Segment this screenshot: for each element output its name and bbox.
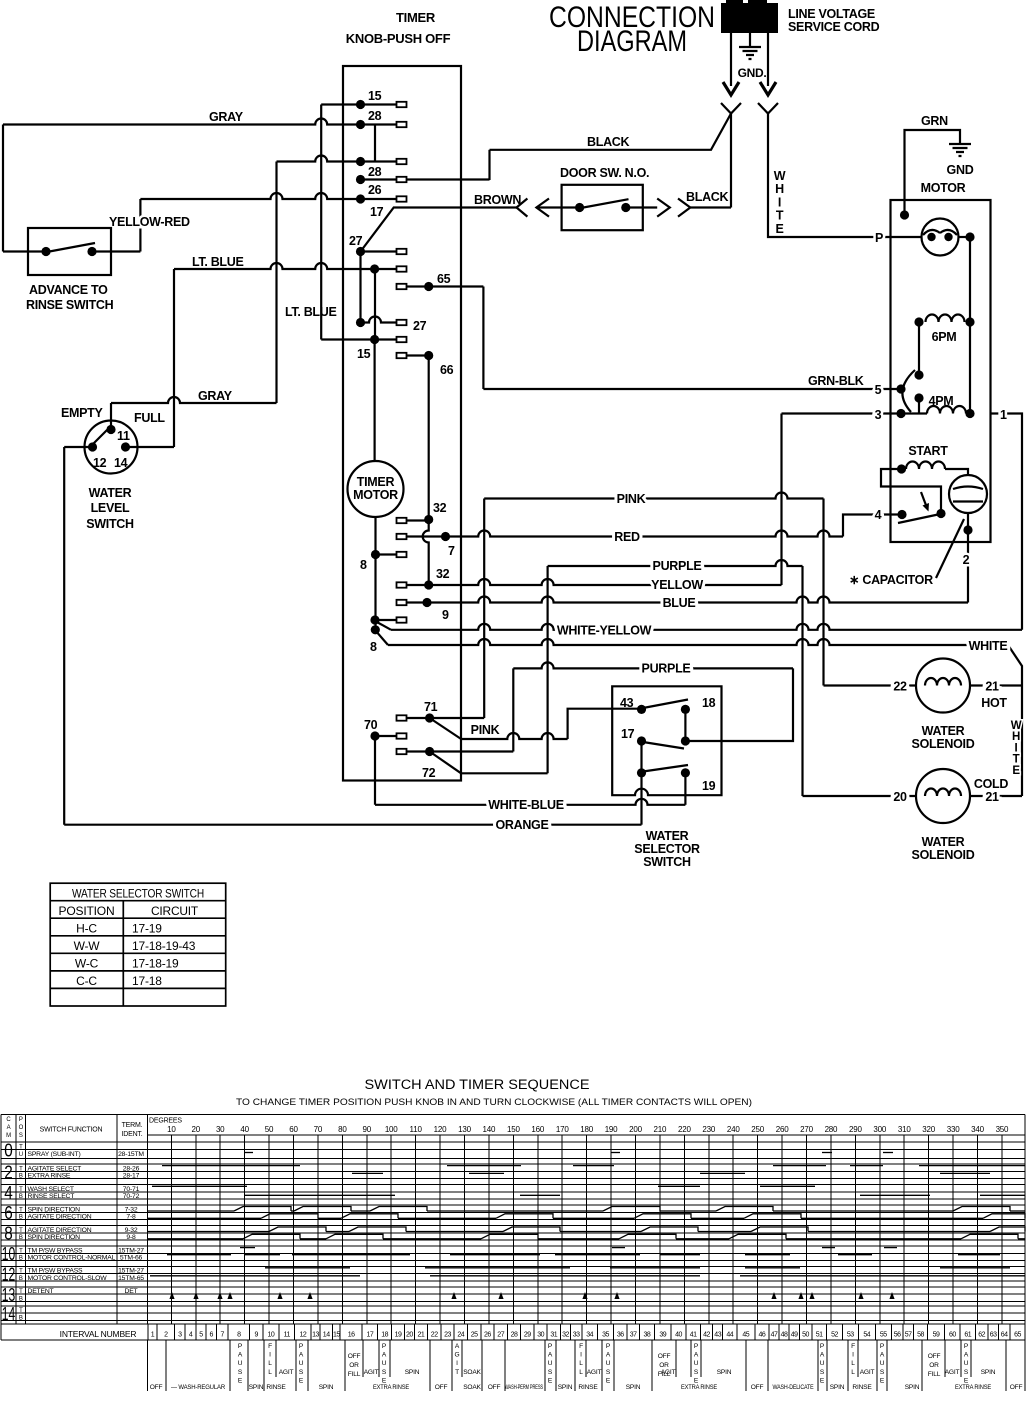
wire 6PM left down to cam switch bbox=[918, 322, 920, 375]
svg-text:BLACK: BLACK bbox=[587, 135, 630, 149]
svg-text:66: 66 bbox=[440, 363, 454, 377]
timer terminal 70 bbox=[397, 733, 407, 738]
svg-text:140: 140 bbox=[483, 1125, 496, 1134]
svg-text:34: 34 bbox=[586, 1332, 593, 1339]
svg-text:36: 36 bbox=[617, 1332, 624, 1339]
svg-text:T: T bbox=[19, 1289, 23, 1295]
svg-text:11: 11 bbox=[117, 429, 130, 443]
water level contact 11 bbox=[106, 425, 115, 434]
svg-text:31: 31 bbox=[550, 1332, 557, 1339]
svg-text:GRAY: GRAY bbox=[209, 110, 244, 124]
svg-text:IDENT.: IDENT. bbox=[122, 1131, 143, 1138]
svg-text:43: 43 bbox=[714, 1332, 721, 1339]
wire 66 down to terminal 32 bbox=[428, 356, 430, 520]
wire GRN with ground bbox=[905, 130, 961, 215]
svg-text:6PM: 6PM bbox=[932, 330, 957, 344]
svg-text:290: 290 bbox=[849, 1125, 862, 1134]
svg-text:WASH-DELICATE: WASH-DELICATE bbox=[773, 1384, 815, 1391]
main winding 6PM coil bbox=[914, 317, 923, 326]
timer box bbox=[343, 66, 461, 781]
svg-text:44: 44 bbox=[726, 1332, 733, 1339]
svg-text:21: 21 bbox=[985, 680, 999, 694]
timer terminal 28 top bbox=[3, 119, 397, 125]
svg-text:U: U bbox=[694, 1360, 699, 1367]
svg-text:280: 280 bbox=[825, 1125, 838, 1134]
svg-text:14: 14 bbox=[2, 1304, 16, 1324]
svg-text:0: 0 bbox=[4, 1140, 13, 1160]
svg-text:LT. BLUE: LT. BLUE bbox=[192, 255, 244, 269]
svg-text:B: B bbox=[19, 1235, 23, 1241]
svg-text:WATER: WATER bbox=[646, 829, 689, 843]
svg-text:5: 5 bbox=[199, 1332, 203, 1339]
svg-text:T: T bbox=[19, 1187, 23, 1193]
svg-text:∗ CAPACITOR: ∗ CAPACITOR bbox=[849, 573, 933, 587]
svg-text:22: 22 bbox=[431, 1332, 438, 1339]
svg-text:58: 58 bbox=[917, 1332, 924, 1339]
timer terminal 15 lower bbox=[321, 338, 396, 340]
wire 11 vertical bbox=[110, 403, 112, 430]
svg-text:E: E bbox=[1012, 765, 1020, 777]
svg-text:20: 20 bbox=[893, 790, 907, 804]
capacitor lower node bbox=[963, 525, 972, 534]
wire red corner to terminal 4 bbox=[843, 515, 902, 537]
svg-text:3: 3 bbox=[875, 408, 882, 422]
svg-text:RINSE SWITCH: RINSE SWITCH bbox=[26, 298, 114, 312]
svg-text:72: 72 bbox=[422, 766, 436, 780]
svg-text:EXTRA RINSE: EXTRA RINSE bbox=[28, 1173, 71, 1180]
wire 27 link vertical crossing bbox=[374, 269, 376, 340]
svg-text:SOAK: SOAK bbox=[463, 1384, 481, 1391]
wire 14 right bbox=[126, 446, 175, 448]
wire GRN-BLK to terminal 5 bbox=[483, 388, 901, 390]
wire BLACK from timer 26 up and over to connector bbox=[488, 150, 490, 180]
svg-text:U: U bbox=[382, 1360, 387, 1367]
wire ORANGE to selector 17 bbox=[64, 824, 641, 826]
svg-text:S: S bbox=[19, 1133, 23, 1139]
svg-text:DET: DET bbox=[125, 1288, 138, 1295]
svg-text:WHITE-YELLOW: WHITE-YELLOW bbox=[557, 624, 652, 638]
svg-text:OFF: OFF bbox=[1010, 1384, 1023, 1391]
wire into door switch left bbox=[536, 206, 579, 208]
svg-text:12: 12 bbox=[2, 1265, 16, 1285]
svg-text:220: 220 bbox=[678, 1125, 691, 1134]
svg-text:5TM-66: 5TM-66 bbox=[120, 1255, 143, 1262]
svg-text:23: 23 bbox=[444, 1332, 451, 1339]
svg-text:GND.: GND. bbox=[738, 66, 767, 80]
svg-text:50: 50 bbox=[265, 1125, 274, 1134]
svg-text:WHITE: WHITE bbox=[969, 639, 1008, 653]
svg-text:27: 27 bbox=[349, 234, 363, 248]
chart frame and grid bbox=[1, 1115, 1025, 1341]
svg-text:T: T bbox=[19, 1248, 23, 1254]
svg-text:T: T bbox=[19, 1308, 23, 1314]
svg-text:10: 10 bbox=[2, 1244, 16, 1264]
svg-text:200: 200 bbox=[629, 1125, 642, 1134]
svg-text:WATER: WATER bbox=[89, 486, 132, 500]
svg-text:63: 63 bbox=[990, 1332, 997, 1339]
wire 28b down to gray2 vertical bbox=[275, 162, 277, 404]
svg-text:B: B bbox=[19, 1194, 23, 1200]
wire link 15 to 15 vertical bbox=[320, 105, 322, 340]
svg-text:32: 32 bbox=[436, 567, 450, 581]
door switch contact left bbox=[575, 203, 584, 212]
svg-text:27: 27 bbox=[413, 319, 427, 333]
svg-text:51: 51 bbox=[816, 1332, 823, 1339]
svg-text:2: 2 bbox=[963, 553, 970, 567]
svg-text:39: 39 bbox=[659, 1332, 666, 1339]
wire 6PM right to 4PM right bbox=[969, 322, 971, 414]
arrowhead black line bbox=[723, 82, 739, 95]
svg-text:190: 190 bbox=[605, 1125, 618, 1134]
wire PURPLE from 72 to cold solenoid 20 bbox=[548, 560, 803, 566]
wire selector 17 down to orange bbox=[640, 773, 642, 825]
wire motor 1 vertical right edge bbox=[991, 414, 1023, 630]
svg-text:SERVICE CORD: SERVICE CORD bbox=[788, 20, 880, 34]
svg-text:ADVANCE TO: ADVANCE TO bbox=[29, 283, 108, 297]
svg-text:20: 20 bbox=[192, 1125, 201, 1134]
wire link 32 upper to 32 lower bbox=[423, 520, 429, 586]
svg-text:42: 42 bbox=[703, 1332, 710, 1339]
svg-text:17: 17 bbox=[370, 205, 384, 219]
svg-text:9-32: 9-32 bbox=[125, 1227, 138, 1234]
svg-text:3: 3 bbox=[178, 1332, 182, 1339]
svg-text:1: 1 bbox=[151, 1332, 155, 1339]
svg-text:17-19: 17-19 bbox=[132, 922, 162, 936]
svg-text:17-18-19-43: 17-18-19-43 bbox=[132, 939, 196, 953]
svg-text:13: 13 bbox=[2, 1285, 16, 1305]
svg-text:RINSE: RINSE bbox=[266, 1384, 286, 1391]
wire 12 left bbox=[64, 446, 92, 448]
svg-text:DIAGRAM: DIAGRAM bbox=[577, 25, 687, 58]
svg-text:6: 6 bbox=[209, 1332, 213, 1339]
timer terminal 28 second bbox=[277, 156, 397, 162]
svg-text:SWITCH FUNCTION: SWITCH FUNCTION bbox=[40, 1127, 103, 1134]
svg-text:46: 46 bbox=[759, 1332, 766, 1339]
svg-text:T: T bbox=[19, 1207, 23, 1213]
svg-text:48: 48 bbox=[781, 1332, 788, 1339]
svg-text:WATER: WATER bbox=[922, 835, 965, 849]
ground symbol service cord bbox=[739, 47, 761, 59]
svg-text:15TM-65: 15TM-65 bbox=[118, 1275, 144, 1282]
svg-text:15: 15 bbox=[333, 1332, 340, 1339]
svg-text:SWITCH: SWITCH bbox=[86, 517, 134, 531]
svg-text:WATER: WATER bbox=[922, 724, 965, 738]
svg-text:L: L bbox=[851, 1369, 855, 1376]
svg-text:GRN-BLK: GRN-BLK bbox=[808, 374, 864, 388]
svg-text:OFF: OFF bbox=[751, 1384, 764, 1391]
wire selector 19 down to white-blue bbox=[684, 773, 686, 805]
svg-text:SOLENOID: SOLENOID bbox=[912, 737, 975, 751]
svg-text:62: 62 bbox=[978, 1332, 985, 1339]
selector contact row3 left bbox=[637, 768, 646, 777]
svg-text:G: G bbox=[455, 1352, 460, 1359]
svg-text:B: B bbox=[19, 1174, 23, 1180]
svg-text:TERM.: TERM. bbox=[122, 1122, 143, 1129]
svg-text:SWITCH: SWITCH bbox=[643, 855, 691, 869]
svg-text:SPIN: SPIN bbox=[405, 1369, 420, 1376]
svg-text:28: 28 bbox=[511, 1332, 518, 1339]
svg-text:45: 45 bbox=[742, 1332, 749, 1339]
timer terminal lt-blue row bbox=[174, 263, 397, 269]
svg-text:15: 15 bbox=[368, 89, 382, 103]
svg-text:AGIT: AGIT bbox=[279, 1369, 294, 1376]
svg-text:250: 250 bbox=[751, 1125, 764, 1134]
svg-text:T: T bbox=[19, 1145, 23, 1151]
svg-text:17-18-19: 17-18-19 bbox=[132, 957, 179, 971]
svg-text:15TM-27: 15TM-27 bbox=[118, 1247, 144, 1254]
svg-text:LINE VOLTAGE: LINE VOLTAGE bbox=[788, 7, 875, 21]
svg-text:300: 300 bbox=[873, 1125, 886, 1134]
cold water solenoid bbox=[916, 769, 970, 823]
svg-text:OFF: OFF bbox=[348, 1353, 361, 1360]
svg-text:I: I bbox=[778, 195, 781, 209]
svg-text:12: 12 bbox=[93, 456, 107, 470]
svg-text:— WASH-REGULAR: — WASH-REGULAR bbox=[171, 1384, 225, 1391]
svg-text:24: 24 bbox=[457, 1332, 464, 1339]
wire PINK from 71 to hot solenoid 22 bbox=[484, 493, 823, 499]
wire start coil to capacitor bbox=[945, 469, 968, 476]
motor grn node bbox=[900, 210, 909, 219]
svg-text:38: 38 bbox=[644, 1332, 651, 1339]
svg-text:100: 100 bbox=[385, 1125, 398, 1134]
svg-text:4: 4 bbox=[4, 1183, 13, 1203]
svg-text:SPRAY (SUB-INT): SPRAY (SUB-INT) bbox=[28, 1151, 81, 1158]
svg-text:SPIN DIRECTION: SPIN DIRECTION bbox=[28, 1206, 81, 1213]
motor box bbox=[891, 200, 991, 542]
svg-text:30: 30 bbox=[537, 1332, 544, 1339]
svg-text:18: 18 bbox=[702, 696, 716, 710]
selector contact 18 bbox=[681, 705, 690, 714]
motor main winding circle bbox=[922, 219, 959, 256]
water level contact 12 bbox=[88, 442, 97, 451]
svg-text:W-C: W-C bbox=[75, 957, 99, 971]
svg-text:16: 16 bbox=[348, 1332, 355, 1339]
svg-text:GRAY: GRAY bbox=[198, 389, 233, 403]
svg-text:AGIT: AGIT bbox=[587, 1369, 602, 1376]
wire 65 down to grn-blk bbox=[482, 287, 484, 390]
start switch contacts bbox=[897, 510, 906, 519]
svg-text:T: T bbox=[776, 209, 784, 223]
water level switch blade bbox=[91, 429, 108, 446]
svg-text:F: F bbox=[268, 1343, 272, 1350]
water level switch circle bbox=[85, 421, 138, 474]
svg-text:22: 22 bbox=[893, 680, 907, 694]
svg-text:A: A bbox=[7, 1125, 11, 1131]
wire right rail down to 6PM bbox=[969, 237, 971, 322]
svg-text:FILL: FILL bbox=[348, 1371, 361, 1378]
svg-text:19: 19 bbox=[702, 779, 716, 793]
svg-text:EXTRA RINSE: EXTRA RINSE bbox=[373, 1384, 410, 1391]
svg-text:40: 40 bbox=[675, 1332, 682, 1339]
svg-text:8: 8 bbox=[370, 640, 377, 654]
svg-text:L: L bbox=[268, 1360, 272, 1367]
svg-text:TM P/SW BYPASS: TM P/SW BYPASS bbox=[28, 1247, 84, 1254]
svg-text:43: 43 bbox=[620, 696, 634, 710]
svg-text:SPIN: SPIN bbox=[717, 1369, 732, 1376]
svg-text:T: T bbox=[455, 1369, 459, 1376]
advance to rinse switch box bbox=[28, 228, 111, 275]
svg-text:37: 37 bbox=[630, 1332, 637, 1339]
svg-text:65: 65 bbox=[437, 272, 451, 286]
timer terminal 7 / wire RED to motor 4 bbox=[397, 534, 407, 539]
svg-text:MOTOR: MOTOR bbox=[921, 181, 966, 195]
svg-text:OR: OR bbox=[929, 1362, 939, 1369]
svg-text:MOTOR CONTROL-SLOW: MOTOR CONTROL-SLOW bbox=[28, 1275, 108, 1282]
svg-text:T: T bbox=[19, 1166, 23, 1172]
svg-text:TO CHANGE TIMER POSITION PUSH: TO CHANGE TIMER POSITION PUSH KNOB IN AN… bbox=[236, 1097, 752, 1107]
timer motor circle bbox=[348, 461, 404, 517]
svg-text:YELLOW: YELLOW bbox=[651, 578, 703, 592]
water level contact 14 bbox=[121, 442, 130, 451]
svg-text:H: H bbox=[775, 182, 784, 196]
svg-text:350: 350 bbox=[996, 1125, 1009, 1134]
svg-text:WASH-PERM PRESS: WASH-PERM PRESS bbox=[505, 1384, 543, 1391]
svg-text:14: 14 bbox=[323, 1332, 330, 1339]
svg-text:310: 310 bbox=[898, 1125, 911, 1134]
svg-text:5: 5 bbox=[875, 383, 882, 397]
svg-text:CIRCUIT: CIRCUIT bbox=[151, 904, 199, 918]
svg-text:U: U bbox=[238, 1360, 243, 1367]
svg-text:28-17: 28-17 bbox=[123, 1173, 140, 1180]
svg-text:H: H bbox=[1012, 731, 1020, 743]
wire advance left bbox=[3, 250, 46, 252]
svg-text:17-18: 17-18 bbox=[132, 974, 162, 988]
wire P into winding bbox=[891, 236, 922, 238]
svg-text:18: 18 bbox=[381, 1332, 388, 1339]
svg-text:W-W: W-W bbox=[74, 939, 101, 953]
svg-text:60: 60 bbox=[949, 1332, 956, 1339]
svg-text:14: 14 bbox=[114, 456, 128, 470]
wire 17 to row3 bbox=[640, 741, 642, 773]
svg-text:28: 28 bbox=[368, 109, 382, 123]
wire white right edge hot to cold bbox=[1021, 686, 1023, 797]
svg-text:B: B bbox=[19, 1276, 23, 1282]
svg-text:PINK: PINK bbox=[617, 492, 646, 506]
svg-text:FULL: FULL bbox=[134, 411, 165, 425]
service cord plug bbox=[721, 3, 778, 33]
advance switch blade bbox=[44, 243, 95, 253]
svg-text:INTERVAL NUMBER: INTERVAL NUMBER bbox=[60, 1329, 137, 1339]
svg-text:L: L bbox=[268, 1369, 272, 1376]
svg-text:YELLOW-RED: YELLOW-RED bbox=[109, 215, 190, 229]
capacitor circle bbox=[949, 475, 987, 513]
svg-text:260: 260 bbox=[776, 1125, 789, 1134]
svg-text:MOTOR: MOTOR bbox=[353, 488, 398, 502]
svg-text:61: 61 bbox=[964, 1332, 971, 1339]
timer terminal 17 bbox=[140, 193, 396, 199]
wire lt blue vertical to water level 14 bbox=[173, 269, 175, 447]
svg-text:B: B bbox=[19, 1215, 23, 1221]
svg-text:17: 17 bbox=[367, 1332, 374, 1339]
svg-text:AGITATE DIRECTION: AGITATE DIRECTION bbox=[28, 1227, 92, 1234]
cam switch arc bbox=[902, 370, 915, 412]
svg-text:B: B bbox=[19, 1316, 23, 1322]
start switch arrow bbox=[921, 492, 926, 506]
timer terminal 26 bbox=[361, 178, 490, 180]
svg-text:9-8: 9-8 bbox=[126, 1234, 136, 1241]
svg-text:7-32: 7-32 bbox=[125, 1206, 138, 1213]
timer terminal 32 upper bbox=[397, 518, 407, 523]
svg-text:EXTRA RINSE: EXTRA RINSE bbox=[681, 1384, 718, 1391]
svg-text:P: P bbox=[875, 231, 883, 245]
svg-text:64: 64 bbox=[1001, 1332, 1008, 1339]
svg-text:13: 13 bbox=[312, 1332, 319, 1339]
svg-text:OFF: OFF bbox=[435, 1384, 448, 1391]
door switch contact right bbox=[621, 203, 630, 212]
svg-text:TIMER: TIMER bbox=[357, 475, 395, 489]
svg-text:19: 19 bbox=[395, 1332, 402, 1339]
svg-text:H-C: H-C bbox=[76, 922, 97, 936]
svg-text:270: 270 bbox=[800, 1125, 813, 1134]
phase separators bbox=[148, 1340, 1025, 1391]
wire service cord right (white) bbox=[767, 33, 769, 86]
svg-text:HOT: HOT bbox=[981, 696, 1007, 710]
wire gray left vertical bbox=[2, 125, 4, 252]
svg-text:26: 26 bbox=[368, 183, 382, 197]
svg-text:70-72: 70-72 bbox=[123, 1193, 140, 1200]
svg-text:F: F bbox=[851, 1343, 855, 1350]
wire service cord left (black) bbox=[730, 33, 732, 86]
svg-text:WHITE-BLUE: WHITE-BLUE bbox=[488, 798, 563, 812]
svg-text:U: U bbox=[880, 1360, 885, 1367]
wire to black connector vertical bbox=[690, 206, 731, 208]
wire WHITE-YELLOW to motor 1 bbox=[376, 622, 391, 630]
wire PURPLE lower to selector 18 bbox=[513, 662, 793, 668]
svg-text:130: 130 bbox=[458, 1125, 471, 1134]
svg-text:52: 52 bbox=[831, 1332, 838, 1339]
svg-text:E: E bbox=[775, 222, 783, 236]
timer terminal 72 bbox=[397, 749, 407, 754]
svg-text:SPIN: SPIN bbox=[249, 1384, 264, 1391]
wire WHITE-BLUE to selector 19 bbox=[375, 799, 685, 805]
svg-text:DETENT: DETENT bbox=[28, 1288, 54, 1295]
svg-text:B: B bbox=[19, 1297, 23, 1303]
wire door switch to black connector bbox=[730, 114, 732, 208]
advance switch contact right bbox=[87, 247, 96, 256]
svg-text:FILL: FILL bbox=[928, 1371, 941, 1378]
timer terminal 27 upper bbox=[361, 250, 397, 252]
timer terminal 27 lower bbox=[361, 317, 397, 323]
selector contact 17 bbox=[637, 736, 646, 745]
svg-text:POSITION: POSITION bbox=[59, 904, 115, 918]
svg-text:EMPTY: EMPTY bbox=[61, 406, 104, 420]
wire 12 down left side bbox=[63, 447, 65, 825]
svg-text:U: U bbox=[299, 1360, 304, 1367]
svg-text:TM P/SW BYPASS: TM P/SW BYPASS bbox=[28, 1268, 84, 1275]
svg-text:L: L bbox=[851, 1360, 855, 1367]
svg-text:L: L bbox=[579, 1369, 583, 1376]
svg-text:BLUE: BLUE bbox=[663, 596, 696, 610]
svg-text:26: 26 bbox=[484, 1332, 491, 1339]
svg-text:EXTRA RINSE: EXTRA RINSE bbox=[955, 1384, 992, 1391]
svg-text:START: START bbox=[908, 444, 948, 458]
svg-text:70: 70 bbox=[364, 718, 378, 732]
ground symbol motor bbox=[949, 144, 971, 156]
svg-text:BROWN: BROWN bbox=[474, 193, 521, 207]
svg-text:SWITCH AND TIMER SEQUENCE: SWITCH AND TIMER SEQUENCE bbox=[365, 1077, 590, 1092]
svg-text:55: 55 bbox=[880, 1332, 887, 1339]
svg-text:RED: RED bbox=[614, 530, 640, 544]
label CAPACITOR with pointer bbox=[936, 519, 964, 578]
svg-text:AGIT: AGIT bbox=[860, 1369, 875, 1376]
svg-text:54: 54 bbox=[863, 1332, 870, 1339]
svg-text:AGITATE SELECT: AGITATE SELECT bbox=[28, 1165, 82, 1172]
timer motor lower wire bbox=[374, 517, 376, 630]
svg-text:COLD: COLD bbox=[974, 777, 1008, 791]
svg-text:7-8: 7-8 bbox=[126, 1214, 136, 1221]
svg-text:71: 71 bbox=[424, 700, 438, 714]
timer terminal 65 bbox=[397, 284, 407, 289]
